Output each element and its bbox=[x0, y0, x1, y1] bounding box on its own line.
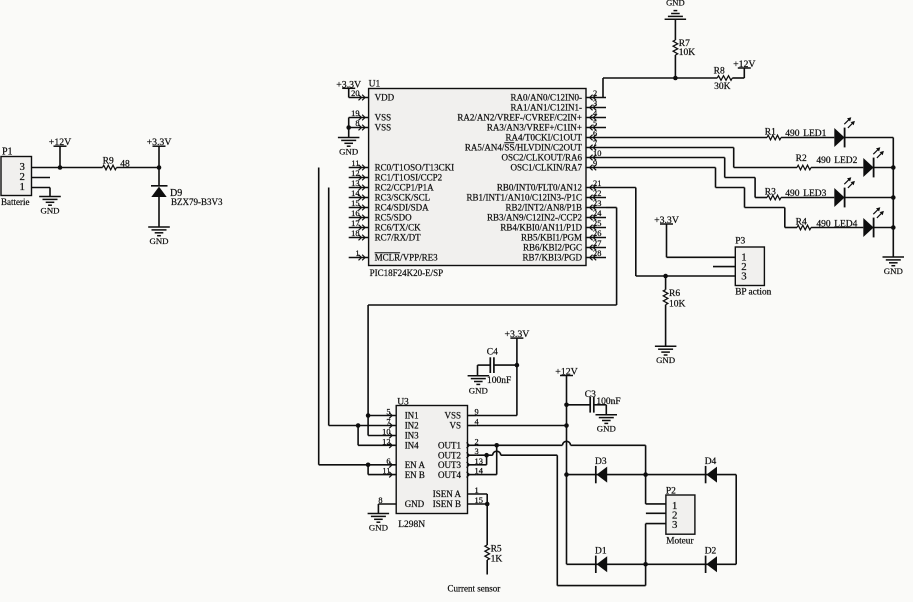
svg-text:RC2/CCP1/P1A: RC2/CCP1/P1A bbox=[375, 183, 435, 193]
svg-text:VS: VS bbox=[449, 421, 461, 431]
svg-text:1: 1 bbox=[20, 181, 25, 193]
svg-text:D2: D2 bbox=[705, 547, 717, 557]
svg-text:10K: 10K bbox=[679, 48, 696, 58]
svg-text:100nF: 100nF bbox=[596, 397, 620, 407]
svg-text:OUT2: OUT2 bbox=[438, 450, 461, 460]
svg-text:RA2/AN2/VREF-/CVREF/C2IN+: RA2/AN2/VREF-/CVREF/C2IN+ bbox=[457, 113, 582, 123]
svg-text:100nF: 100nF bbox=[487, 376, 511, 386]
svg-text:EN B: EN B bbox=[405, 470, 425, 480]
svg-text:R5: R5 bbox=[491, 545, 502, 555]
svg-text:8: 8 bbox=[355, 119, 359, 128]
svg-text:LED1: LED1 bbox=[803, 129, 826, 139]
svg-text:13: 13 bbox=[351, 179, 359, 188]
svg-text:BZX79-B3V3: BZX79-B3V3 bbox=[171, 197, 223, 207]
svg-text:RC1/T1OSI/CCP2: RC1/T1OSI/CCP2 bbox=[375, 173, 443, 183]
svg-text:3: 3 bbox=[672, 519, 677, 531]
svg-text:R4: R4 bbox=[796, 218, 807, 228]
svg-text:RA4/T0CKI/C1OUT: RA4/T0CKI/C1OUT bbox=[506, 133, 583, 143]
svg-text:20: 20 bbox=[351, 89, 359, 98]
svg-text:12: 12 bbox=[382, 437, 390, 446]
svg-text:D1: D1 bbox=[595, 547, 607, 557]
svg-text:RC5/SDO: RC5/SDO bbox=[375, 213, 413, 223]
svg-text:GND: GND bbox=[369, 522, 388, 532]
svg-text:OUT1: OUT1 bbox=[438, 441, 461, 451]
svg-text:LED3: LED3 bbox=[803, 189, 826, 199]
svg-text:+12V: +12V bbox=[49, 137, 71, 148]
svg-text:17: 17 bbox=[351, 219, 359, 228]
svg-text:490: 490 bbox=[816, 156, 831, 166]
svg-text:7: 7 bbox=[386, 418, 390, 427]
svg-text:12: 12 bbox=[351, 169, 359, 178]
svg-text:R3: R3 bbox=[765, 188, 776, 198]
svg-text:10: 10 bbox=[382, 428, 390, 437]
svg-text:6: 6 bbox=[386, 457, 390, 466]
svg-text:OSC1/CLKIN/RA7: OSC1/CLKIN/RA7 bbox=[510, 163, 582, 173]
svg-text:IN4: IN4 bbox=[405, 441, 419, 451]
svg-text:GND: GND bbox=[884, 266, 903, 276]
svg-text:P1: P1 bbox=[2, 147, 13, 158]
svg-text:VSS: VSS bbox=[444, 411, 461, 421]
svg-text:RB2/INT2/AN8/P1B: RB2/INT2/AN8/P1B bbox=[505, 203, 582, 213]
svg-text:GND: GND bbox=[339, 146, 358, 156]
svg-text:D3: D3 bbox=[595, 457, 607, 467]
svg-text:RA0/AN0/C12IN0-: RA0/AN0/C12IN0- bbox=[511, 93, 583, 103]
svg-text:30K: 30K bbox=[714, 82, 731, 92]
svg-text:16: 16 bbox=[351, 209, 359, 218]
svg-text:P2: P2 bbox=[666, 486, 676, 496]
svg-text:PIC18F24K20-E/SP: PIC18F24K20-E/SP bbox=[370, 268, 444, 278]
svg-text:490: 490 bbox=[785, 189, 800, 199]
svg-text:RB0/INT0/FLT0/AN12: RB0/INT0/FLT0/AN12 bbox=[497, 183, 582, 193]
svg-text:R2: R2 bbox=[796, 154, 807, 164]
svg-text:GND: GND bbox=[469, 385, 488, 395]
svg-text:490: 490 bbox=[785, 129, 800, 139]
svg-text:BP action: BP action bbox=[735, 288, 771, 298]
svg-text:MCLR/VPP/RE3: MCLR/VPP/RE3 bbox=[375, 253, 439, 263]
svg-text:L298N: L298N bbox=[398, 520, 425, 530]
svg-text:+3.3V: +3.3V bbox=[504, 329, 529, 340]
svg-text:ISEN B: ISEN B bbox=[433, 499, 461, 509]
svg-text:GND: GND bbox=[597, 424, 616, 434]
svg-text:18: 18 bbox=[351, 229, 359, 238]
svg-text:RC3/SCK/SCL: RC3/SCK/SCL bbox=[375, 193, 431, 203]
svg-text:3: 3 bbox=[741, 271, 746, 283]
svg-text:R6: R6 bbox=[669, 289, 680, 299]
svg-text:EN A: EN A bbox=[405, 460, 426, 470]
svg-text:GND: GND bbox=[405, 499, 425, 509]
svg-text:11: 11 bbox=[382, 467, 390, 476]
svg-text:ISEN A: ISEN A bbox=[433, 489, 462, 499]
svg-text:OUT4: OUT4 bbox=[438, 470, 461, 480]
svg-text:490: 490 bbox=[816, 219, 831, 229]
svg-text:14: 14 bbox=[351, 189, 360, 198]
svg-text:+12V: +12V bbox=[733, 59, 755, 70]
svg-text:RB6/KBI2/PGC: RB6/KBI2/PGC bbox=[523, 243, 582, 253]
svg-text:1: 1 bbox=[355, 249, 359, 258]
svg-text:GND: GND bbox=[40, 205, 59, 215]
svg-text:RA1/AN1/C12IN1-: RA1/AN1/C12IN1- bbox=[511, 103, 583, 113]
svg-text:RB3/AN9/C12IN2-/CCP2: RB3/AN9/C12IN2-/CCP2 bbox=[487, 213, 582, 223]
svg-text:IN2: IN2 bbox=[405, 421, 419, 431]
svg-text:RB4/KBI0/AN11/P1D: RB4/KBI0/AN11/P1D bbox=[500, 223, 582, 233]
svg-text:19: 19 bbox=[351, 109, 359, 118]
svg-text:GND: GND bbox=[656, 355, 675, 365]
svg-text:Moteur: Moteur bbox=[666, 537, 694, 547]
svg-text:15: 15 bbox=[351, 199, 359, 208]
svg-text:RA5/AN4/SS/HLVDIN/C2OUT: RA5/AN4/SS/HLVDIN/C2OUT bbox=[465, 143, 583, 153]
svg-text:+3.3V: +3.3V bbox=[147, 137, 172, 148]
svg-text:10K: 10K bbox=[669, 299, 686, 309]
svg-text:C3: C3 bbox=[585, 390, 596, 400]
svg-text:RA3/AN3/VREF+/C1IN+: RA3/AN3/VREF+/C1IN+ bbox=[487, 123, 582, 133]
svg-text:Batterie: Batterie bbox=[1, 197, 30, 207]
svg-text:RB7/KBI3/PGD: RB7/KBI3/PGD bbox=[522, 253, 582, 263]
svg-text:OSC2/CLKOUT/RA6: OSC2/CLKOUT/RA6 bbox=[501, 153, 582, 163]
svg-text:RC0/T1OSO/T13CKI: RC0/T1OSO/T13CKI bbox=[375, 163, 455, 173]
svg-text:IN1: IN1 bbox=[405, 411, 419, 421]
svg-text:VSS: VSS bbox=[375, 123, 392, 133]
svg-text:VDD: VDD bbox=[375, 93, 395, 103]
svg-text:5: 5 bbox=[386, 408, 390, 417]
svg-text:LED4: LED4 bbox=[834, 219, 857, 229]
svg-text:U1: U1 bbox=[369, 79, 381, 89]
svg-text:LED2: LED2 bbox=[834, 156, 857, 166]
svg-text:OUT3: OUT3 bbox=[438, 460, 461, 470]
svg-text:RC4/SDI/SDA: RC4/SDI/SDA bbox=[375, 203, 430, 213]
svg-text:IN3: IN3 bbox=[405, 431, 419, 441]
svg-text:RB1/INT1/AN10/C12IN3-/P1C: RB1/INT1/AN10/C12IN3-/P1C bbox=[466, 193, 582, 203]
svg-text:D4: D4 bbox=[705, 457, 717, 467]
svg-text:RB5/KBI1/PGM: RB5/KBI1/PGM bbox=[521, 233, 582, 243]
svg-text:C4: C4 bbox=[487, 348, 498, 358]
svg-text:RC7/RX/DT: RC7/RX/DT bbox=[375, 233, 422, 243]
svg-text:R1: R1 bbox=[765, 128, 776, 138]
svg-text:VSS: VSS bbox=[375, 113, 392, 123]
svg-text:1K: 1K bbox=[491, 555, 503, 565]
svg-text:Current sensor: Current sensor bbox=[448, 584, 501, 594]
svg-text:GND: GND bbox=[149, 236, 168, 246]
svg-text:GND: GND bbox=[666, 0, 685, 8]
svg-text:RC6/TX/CK: RC6/TX/CK bbox=[375, 223, 422, 233]
svg-text:P3: P3 bbox=[735, 237, 745, 247]
svg-text:11: 11 bbox=[351, 159, 359, 168]
svg-text:U3: U3 bbox=[397, 397, 409, 407]
